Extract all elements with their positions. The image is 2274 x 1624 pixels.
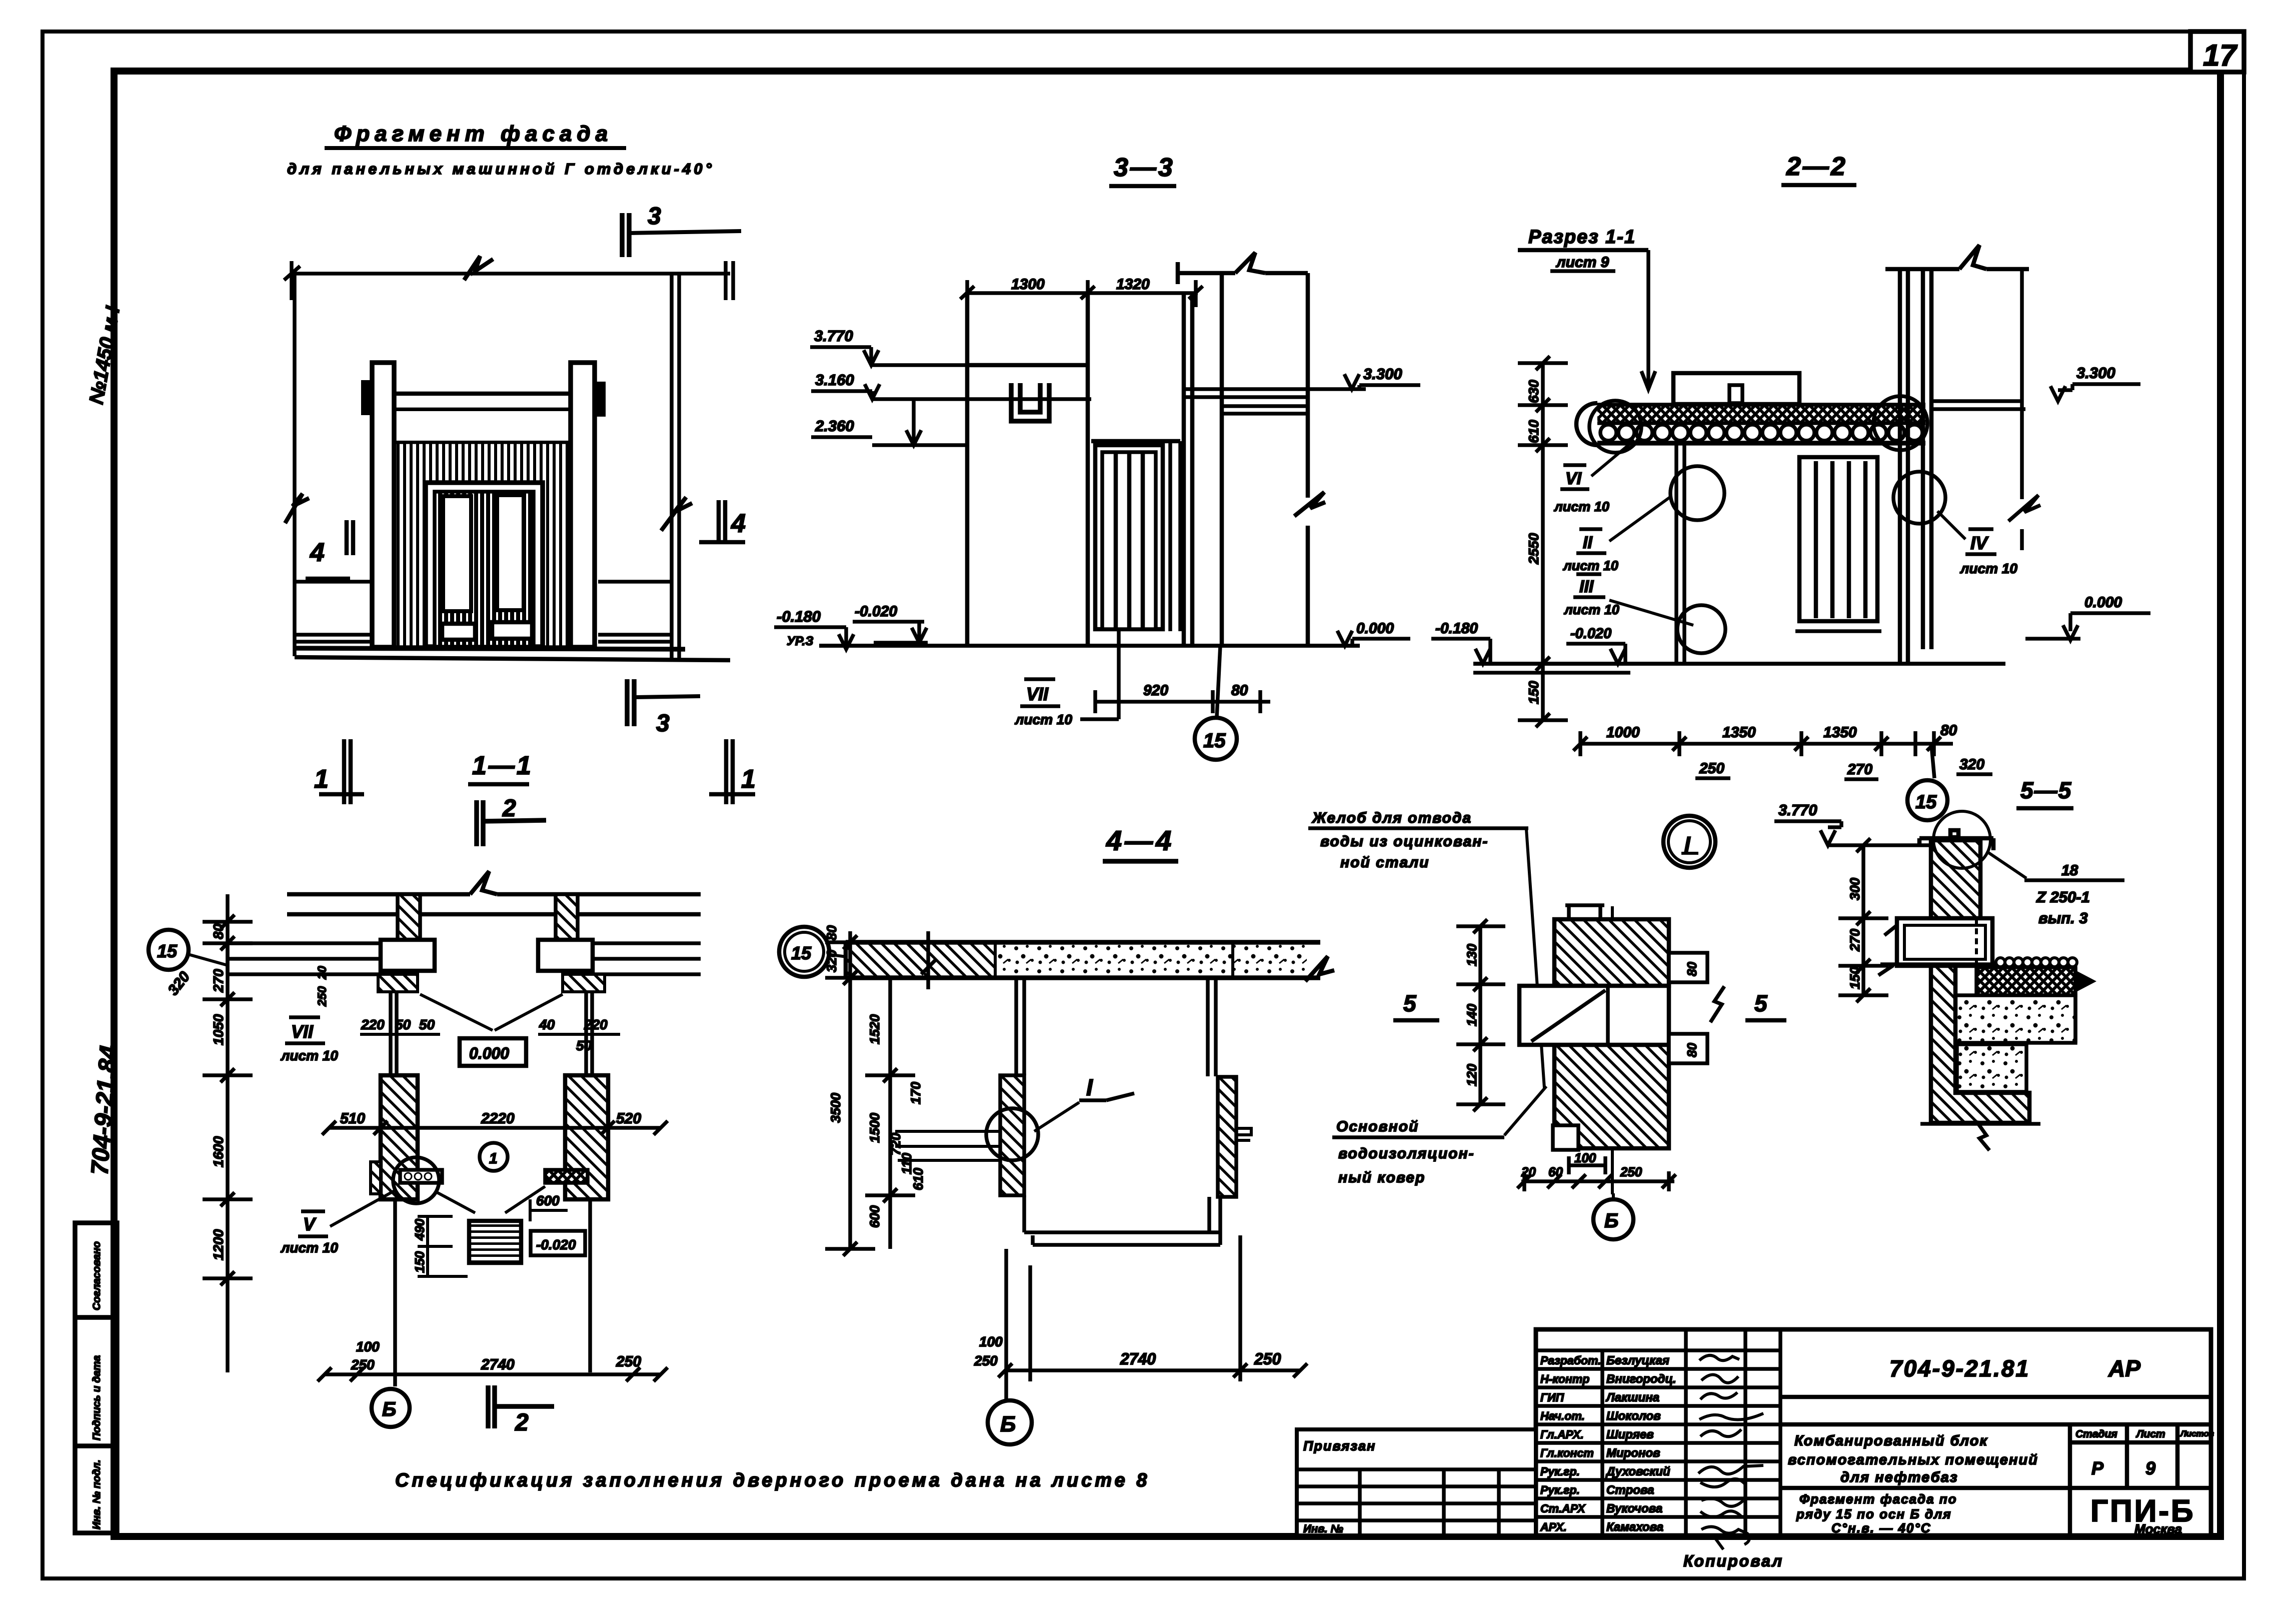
- leader to node VII: [1080, 631, 1119, 719]
- svg-text:1—1: 1—1: [472, 751, 533, 780]
- parapet cap: [1919, 830, 1993, 850]
- elevation mark 0.000 right: [1337, 620, 1410, 646]
- elevation mark 3.300: [2050, 364, 2140, 401]
- svg-text:80: 80: [824, 925, 839, 940]
- ground line: [295, 648, 730, 660]
- svg-text:вып. 3: вып. 3: [2038, 909, 2088, 927]
- svg-text:4: 4: [731, 509, 746, 538]
- section mark 5 right: [1745, 990, 1786, 1020]
- svg-text:-0.020: -0.020: [855, 603, 897, 620]
- level lines right 3.300: [1931, 401, 2025, 409]
- svg-text:VI: VI: [1565, 469, 1582, 488]
- right band lines: [598, 582, 672, 642]
- svg-text:Фрагмент фасада: Фрагмент фасада: [334, 122, 613, 146]
- svg-text:Инв. № подл.: Инв. № подл.: [91, 1459, 103, 1529]
- bottom edge with break: [1920, 1121, 2040, 1150]
- left wall break: [285, 494, 309, 523]
- svg-text:воды из оцинкован-: воды из оцинкован-: [1320, 833, 1488, 850]
- svg-text:Z 250-1: Z 250-1: [2036, 888, 2090, 906]
- callout I with leader: [986, 1074, 1134, 1160]
- section mark 4 right: [699, 500, 745, 544]
- hatched jamb left of 4-4: [1000, 1075, 1024, 1195]
- svg-text:80: 80: [1940, 722, 1957, 739]
- small block on slab: [1729, 385, 1742, 403]
- right stub upper with 80: [1669, 953, 1707, 982]
- tongue diagonal: [1531, 990, 1605, 1041]
- ground line section 2-2: [1473, 662, 2005, 666]
- wall stub above: [1565, 904, 1604, 919]
- opening jamb verticals: [391, 992, 592, 1075]
- svg-text:3.160: 3.160: [815, 371, 854, 389]
- vertical dims 150 490: [412, 1218, 427, 1273]
- main left vertical dim line of plan: [203, 894, 253, 1372]
- svg-text:Гл.АРХ.: Гл.АРХ.: [1540, 1428, 1584, 1441]
- svg-text:-0.180: -0.180: [777, 608, 821, 625]
- svg-text:VII: VII: [291, 1021, 314, 1042]
- svg-text:2220: 2220: [481, 1110, 515, 1127]
- svg-text:Б: Б: [1604, 1210, 1618, 1232]
- svg-text:300: 300: [1847, 878, 1862, 900]
- vertical dims of 5-5: [1838, 838, 1888, 1002]
- svg-text:704-9-21.81: 704-9-21.81: [1889, 1355, 2030, 1381]
- svg-text:150: 150: [1847, 967, 1862, 989]
- detail 5 bottom dims: [1517, 1156, 1676, 1191]
- svg-text:150: 150: [1526, 681, 1541, 704]
- svg-text:4—4: 4—4: [1106, 825, 1174, 856]
- detail circle at wall mid: [1893, 472, 1945, 524]
- svg-text:920: 920: [1143, 682, 1168, 699]
- svg-text:лист 10: лист 10: [1563, 602, 1619, 617]
- svg-text:Внигородц.: Внигородц.: [1606, 1372, 1676, 1386]
- svg-text:Лакшина: Лакшина: [1605, 1391, 1659, 1404]
- node label VII: [1014, 679, 1072, 727]
- svg-text:3500: 3500: [828, 1093, 843, 1123]
- svg-text:270: 270: [211, 969, 226, 993]
- svg-text:50: 50: [576, 1038, 592, 1053]
- roofing crosshatch band: [1976, 967, 2075, 995]
- svg-text:150: 150: [412, 1251, 427, 1273]
- svg-text:0.000: 0.000: [1356, 620, 1394, 637]
- elevation mark 3.770 of 5-5: [1774, 801, 1841, 845]
- svg-text:лист 10: лист 10: [1014, 712, 1072, 727]
- svg-text:Шоколов: Шоколов: [1606, 1409, 1661, 1423]
- svg-text:130: 130: [1464, 944, 1479, 966]
- svg-text:1350: 1350: [1823, 724, 1857, 741]
- svg-text:520: 520: [616, 1110, 641, 1127]
- svg-text:1: 1: [489, 1150, 498, 1167]
- elevation mark 3.770: [810, 327, 879, 365]
- detail 5 lower hatched block: [1554, 1045, 1669, 1148]
- svg-text:ный ковер: ный ковер: [1338, 1169, 1425, 1186]
- top dim ticks on slab: [921, 931, 935, 989]
- lower block notch: [1553, 1125, 1578, 1150]
- small stacked dims 250/20: [316, 966, 329, 1007]
- staff table grid: [1536, 1329, 1780, 1535]
- svg-text:270: 270: [1847, 929, 1862, 952]
- callout circle 15 of 4-4: [779, 927, 850, 977]
- svg-text:Р: Р: [2091, 1458, 2104, 1478]
- left door window: [443, 496, 471, 611]
- svg-text:Ширяев: Ширяев: [1606, 1428, 1654, 1441]
- node label VI: [1553, 440, 1634, 514]
- svg-text:лист 10: лист 10: [280, 1048, 338, 1063]
- section mark 3 top: [622, 213, 741, 257]
- svg-text:Согласовано: Согласовано: [91, 1241, 103, 1310]
- svg-text:Листов: Листов: [2179, 1429, 2214, 1438]
- right kick panel: [492, 622, 532, 639]
- svg-text:-0.180: -0.180: [1435, 620, 1478, 637]
- svg-text:2740: 2740: [1120, 1350, 1156, 1368]
- level line 3.770: [871, 363, 967, 367]
- svg-text:Разрез 1-1: Разрез 1-1: [1528, 227, 1636, 248]
- roofing arrow break: [2075, 970, 2096, 992]
- top wall hatched column right: [556, 894, 578, 940]
- svg-text:15: 15: [1915, 792, 1937, 813]
- door of section 3-3: [1095, 445, 1163, 629]
- project title: [1788, 1433, 2038, 1485]
- bottom dim line of 2-2: [1573, 731, 1953, 756]
- svg-text:250: 250: [1620, 1164, 1642, 1179]
- svg-text:Подпись и дата: Подпись и дата: [91, 1355, 103, 1440]
- svg-text:510: 510: [340, 1110, 365, 1127]
- svg-text:ряду 15 по осн Б для: ряду 15 по осн Б для: [1796, 1506, 1952, 1521]
- svg-text:2740: 2740: [481, 1356, 515, 1373]
- svg-text:1: 1: [314, 765, 329, 794]
- bottom dim line of 4-4: [998, 1235, 1307, 1399]
- svg-text:250: 250: [316, 986, 329, 1007]
- leader and label 18 / Z 250-1: [1986, 851, 2124, 927]
- section mark 5 left: [1393, 990, 1439, 1020]
- svg-text:Вукочова: Вукочова: [1606, 1502, 1662, 1515]
- node label III: [1563, 574, 1693, 625]
- svg-text:20: 20: [316, 966, 329, 980]
- concrete slab of 5-5: [1955, 995, 2075, 1043]
- right wall break: [661, 497, 692, 531]
- svg-text:Нач.от.: Нач.от.: [1540, 1409, 1585, 1422]
- section mark 1 right: [709, 739, 755, 804]
- svg-text:600: 600: [536, 1193, 560, 1208]
- bottom dim line of plan: [318, 1367, 668, 1381]
- left kick panel: [442, 624, 475, 640]
- section 2-2 title: [1781, 152, 1856, 185]
- lintel beam: [393, 394, 571, 410]
- svg-text:Привязан: Привязан: [1303, 1438, 1376, 1453]
- stage/sheet headers: [2075, 1428, 2214, 1440]
- top dimension line: [284, 256, 733, 300]
- hatched jamb right of 4-4: [1218, 1077, 1236, 1197]
- svg-text:5: 5: [1754, 990, 1768, 1016]
- tongue (gutter): [1519, 986, 1669, 1045]
- svg-text:15: 15: [791, 943, 812, 963]
- right outer wall line with break: [1294, 273, 1325, 644]
- svg-text:100: 100: [1574, 1150, 1596, 1165]
- annex table (left of title block): [1297, 1429, 1536, 1535]
- svg-text:120: 120: [1464, 1064, 1479, 1086]
- elevation mark 2.360: [811, 417, 921, 445]
- staff role labels: [1540, 1354, 1601, 1533]
- right wall top line with break: [1178, 253, 1308, 284]
- svg-text:80: 80: [211, 923, 226, 939]
- left wall below slab: [1676, 445, 1684, 664]
- left pier hatched: [381, 1075, 418, 1199]
- section mark 2 bottom: [488, 1385, 554, 1428]
- svg-text:80: 80: [1684, 962, 1699, 976]
- svg-text:3: 3: [656, 710, 670, 737]
- section 3-3 title: [1109, 153, 1176, 186]
- facade title line 1: [325, 122, 626, 148]
- svg-text:Н-контр: Н-контр: [1540, 1372, 1589, 1385]
- right wall band in plan: [593, 943, 701, 974]
- elevation mark 0.000 right: [2025, 594, 2150, 640]
- tongue end vertical: [1606, 986, 1610, 1045]
- svg-text:АРХ.: АРХ.: [1540, 1520, 1567, 1533]
- left pier foot: [371, 1162, 381, 1194]
- pier verticals to bottom: [395, 1199, 590, 1386]
- parapet wall hatched: [1931, 840, 1980, 918]
- section mark 1 left: [319, 739, 364, 804]
- svg-text:170: 170: [908, 1082, 923, 1104]
- room outline bottom: [1024, 1195, 1220, 1245]
- level line 3.160: [872, 397, 1091, 401]
- svg-text:Б: Б: [382, 1398, 396, 1420]
- leader arrow from Razrez label: [1641, 250, 1655, 389]
- svg-text:-0.020: -0.020: [1570, 626, 1611, 642]
- svg-text:600: 600: [867, 1205, 882, 1228]
- svg-text:0.000: 0.000: [469, 1044, 509, 1062]
- svg-text:Желоб для отвода: Желоб для отвода: [1311, 810, 1472, 826]
- door jamb hatch left: [378, 974, 418, 992]
- svg-text:3.300: 3.300: [1363, 365, 1402, 383]
- svg-text:лист 10: лист 10: [1553, 499, 1609, 514]
- sheet number box: [2190, 32, 2244, 72]
- svg-text:Спецификация заполнения двер: Спецификация заполнения дверного проема …: [395, 1470, 1150, 1491]
- svg-text:18: 18: [2061, 862, 2078, 879]
- svg-text:610: 610: [911, 1168, 926, 1190]
- axis circle B of 4-4: [988, 1400, 1032, 1444]
- staff names: [1605, 1354, 1676, 1534]
- right slab end line: [2073, 967, 2077, 1043]
- hollow-core slab: top chord: [1597, 403, 1925, 408]
- svg-text:1000: 1000: [1606, 724, 1640, 741]
- door jamb right: [1170, 441, 1180, 631]
- node label IV: [1937, 511, 2017, 576]
- svg-text:250: 250: [1699, 760, 1724, 777]
- door lintel: [1091, 439, 1180, 444]
- slab crosshatch screed: [1597, 407, 1925, 423]
- node label II: [1562, 496, 1671, 573]
- svg-text:Миронов: Миронов: [1606, 1446, 1660, 1460]
- svg-text:ГИП: ГИП: [1540, 1391, 1564, 1404]
- wall top edge with break: [1885, 245, 2029, 269]
- left vertical dim line of 2-2: [1518, 356, 1568, 727]
- plan top wall lines with break: [287, 871, 701, 914]
- svg-text:5: 5: [1403, 990, 1417, 1016]
- right dim line with break: [2008, 269, 2040, 550]
- svg-text:1350: 1350: [1722, 724, 1756, 741]
- elevation mark 3.300 of section 3-3: [1344, 365, 1420, 389]
- top wall hatched column left: [398, 894, 420, 940]
- svg-text:17: 17: [2203, 39, 2237, 72]
- vent grille: [469, 1221, 521, 1263]
- svg-text:1200: 1200: [211, 1229, 226, 1260]
- U channel detail: [1011, 383, 1049, 421]
- svg-text:Рук.гр.: Рук.гр.: [1540, 1483, 1580, 1496]
- svg-text:1: 1: [741, 765, 756, 794]
- signatures: [1698, 1355, 1763, 1544]
- svg-text:250: 250: [616, 1353, 641, 1370]
- slab band of 4-4: [846, 942, 1334, 981]
- svg-text:3—3: 3—3: [1114, 153, 1175, 182]
- svg-text:Комбанированный блок: Комбанированный блок: [1794, 1433, 1988, 1449]
- right wall pipe stub: [1236, 1128, 1251, 1140]
- svg-text:лист 10: лист 10: [1562, 558, 1618, 573]
- svg-text:1600: 1600: [211, 1136, 226, 1167]
- svg-text:1500: 1500: [867, 1113, 882, 1143]
- right threshold strip: [545, 1170, 588, 1183]
- svg-text:100: 100: [356, 1339, 380, 1354]
- detail 5-5 title: [2016, 777, 2073, 808]
- node circle I: [1663, 816, 1715, 868]
- door leaves striped: [435, 492, 534, 647]
- leaders from thresholds: [435, 1186, 545, 1213]
- elevation mark -0.180 right of facade: [774, 608, 854, 649]
- break mark right: [1710, 986, 1724, 1022]
- left pilaster column: [372, 363, 394, 647]
- svg-text:2: 2: [502, 795, 516, 822]
- ground line section 3-3: [819, 644, 1360, 648]
- callout circle 15 of section 3-3: [1195, 646, 1237, 760]
- svg-text:I: I: [1086, 1074, 1093, 1100]
- svg-text:2: 2: [515, 1409, 529, 1436]
- svg-text:1050: 1050: [211, 1014, 226, 1045]
- svg-text:2550: 2550: [1526, 533, 1541, 565]
- svg-text:3.770: 3.770: [1778, 801, 1817, 819]
- slab cores: [1600, 425, 1922, 441]
- svg-text:40: 40: [539, 1017, 555, 1032]
- svg-text:250: 250: [1254, 1350, 1281, 1368]
- gravel row: [1996, 958, 2077, 967]
- svg-text:3: 3: [648, 203, 661, 230]
- left band lines: [295, 582, 372, 642]
- detail circle around threshold: [393, 1157, 439, 1203]
- svg-text:250: 250: [974, 1353, 998, 1368]
- svg-text:15: 15: [157, 941, 178, 961]
- svg-text:2.360: 2.360: [815, 417, 854, 435]
- level box -0.020: [531, 1231, 585, 1255]
- slab bottom chord: [1597, 441, 1925, 446]
- svg-text:320: 320: [1959, 756, 1984, 773]
- secondary dims 250/270/320: [1695, 774, 1992, 779]
- door frame: [426, 483, 543, 647]
- callout circle 1: [480, 1143, 508, 1171]
- door swing dashed V: [420, 994, 563, 1030]
- svg-text:100: 100: [979, 1334, 1003, 1349]
- svg-text:1300: 1300: [1011, 276, 1045, 293]
- svg-text:140: 140: [1464, 1004, 1479, 1026]
- gutter box of 5-5: [1884, 918, 1992, 966]
- svg-text:Б: Б: [1000, 1412, 1016, 1436]
- detail circle at slab left end: [1589, 401, 1641, 453]
- svg-text:1520: 1520: [867, 1014, 882, 1044]
- left margin stamp cells: [75, 1223, 117, 1533]
- svg-text:вспомогательных помещений: вспомогательных помещений: [1788, 1452, 2038, 1468]
- section mark 3 bottom: [627, 679, 700, 726]
- right column flange: [538, 940, 593, 971]
- right pier hatched: [565, 1075, 608, 1199]
- walls below slab: [1016, 978, 1216, 1076]
- detail 5 vertical dims: [1456, 919, 1505, 1111]
- svg-text:3.300: 3.300: [2076, 364, 2115, 382]
- node label V: [280, 1190, 395, 1255]
- parapet box on slab: [1673, 373, 1799, 404]
- svg-text:Копировал: Копировал: [1683, 1552, 1783, 1570]
- svg-text:1320: 1320: [1116, 276, 1150, 293]
- svg-text:-0.020: -0.020: [536, 1237, 576, 1252]
- node label VII of plan: [280, 1017, 338, 1063]
- svg-text:50: 50: [419, 1017, 435, 1032]
- main column of section: [967, 293, 1088, 644]
- right pilaster block: [595, 382, 606, 417]
- level line 2.360: [872, 399, 967, 445]
- right wall horizontals: [1184, 389, 1366, 414]
- slab left rounded end: [1576, 403, 1597, 445]
- svg-text:для панельных машинной Г отдел: для панельных машинной Г отделки-40°: [287, 160, 715, 178]
- svg-text:50: 50: [395, 1017, 411, 1032]
- svg-text:Инв. №: Инв. №: [1303, 1522, 1343, 1535]
- axis circle B: [372, 1389, 410, 1427]
- left wall band in plan: [228, 943, 381, 974]
- svg-text:водоизоляцион-: водоизоляцион-: [1338, 1145, 1475, 1162]
- left threshold strip: [400, 1170, 442, 1183]
- callout circle 15 of section 2-2: [1907, 745, 1947, 820]
- floor level box 0.000: [460, 1038, 526, 1066]
- section mark 2 top: [477, 800, 546, 846]
- elevation mark -0.020 left column: [1566, 626, 1625, 664]
- svg-text:80: 80: [1684, 1043, 1699, 1057]
- right pilaster column: [571, 363, 595, 647]
- plan 1-1 title: [468, 751, 533, 784]
- gutter label: [1308, 810, 1544, 1088]
- svg-text:Безлуцкая: Безлуцкая: [1606, 1354, 1669, 1367]
- svg-text:80: 80: [1231, 682, 1248, 699]
- section mark 4 left: [306, 520, 353, 579]
- svg-text:220: 220: [361, 1017, 385, 1032]
- svg-text:Камахова: Камахова: [1606, 1520, 1663, 1534]
- stamp cell labels: [91, 1241, 103, 1529]
- detail circle at slab right end: [1873, 396, 1927, 450]
- svg-text:20: 20: [1521, 1164, 1536, 1179]
- corrugated cladding: [393, 442, 571, 647]
- lower concrete block: [1957, 1044, 2026, 1092]
- membrane label: [1332, 1086, 1546, 1186]
- svg-text:для нефтебаз: для нефтебаз: [1840, 1469, 1958, 1485]
- elevation mark -0.020: [853, 603, 928, 643]
- svg-text:Ст.АРХ: Ст.АРХ: [1540, 1502, 1586, 1515]
- title block main frame: [1536, 1329, 2211, 1535]
- svg-text:С°н.в. — 40°С: С°н.в. — 40°С: [1831, 1520, 1931, 1535]
- svg-text:270: 270: [1847, 761, 1872, 778]
- interior floor lines: [895, 1131, 1000, 1160]
- sheet title: [1796, 1491, 1957, 1535]
- right stub lower with 80: [1669, 1034, 1707, 1063]
- svg-text:АР: АР: [2108, 1355, 2140, 1381]
- plan 4-4 title: [1103, 825, 1178, 861]
- svg-text:лист 9: лист 9: [1555, 254, 1609, 271]
- detail circle on left wall: [1670, 466, 1724, 520]
- callout circle 15 of plan: [149, 930, 228, 970]
- svg-text:Гл.конст: Гл.конст: [1540, 1446, 1594, 1459]
- title block horizontal dividers right: [1780, 1397, 2211, 1535]
